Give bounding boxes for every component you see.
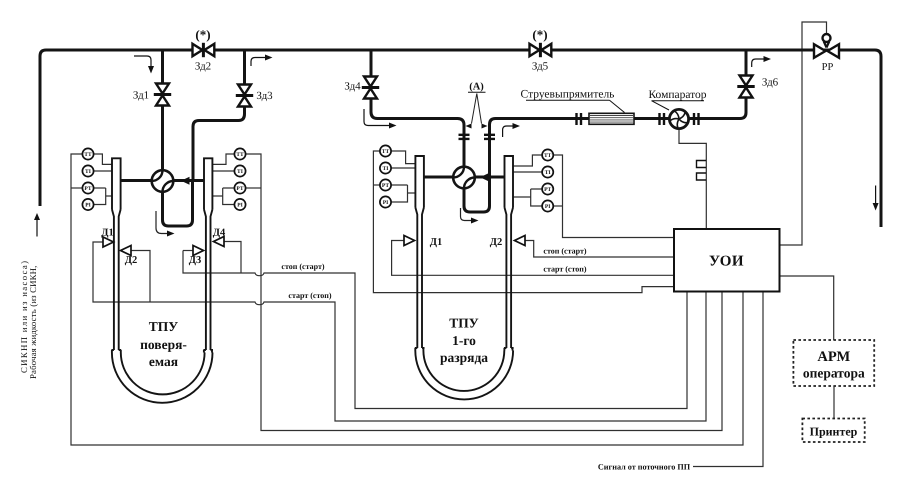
outlet arrow (down) xyxy=(875,186,877,205)
arrow into Zd4 branch xyxy=(364,109,390,126)
wire: prover2 left instrument trunk to UOI left xyxy=(373,151,674,293)
valve Zd5 xyxy=(530,44,552,56)
seat bar Zd2 xyxy=(202,43,205,57)
valve Zd6 xyxy=(740,76,753,98)
wire: prover1 header between tubes through 4-way valve xyxy=(121,179,204,182)
svg-text:Д2: Д2 xyxy=(490,237,502,248)
svg-text:УОИ: УОИ xyxy=(709,254,744,270)
inlet arrow (up) xyxy=(36,219,38,237)
svg-text:TI: TI xyxy=(85,169,91,175)
box UOI xyxy=(674,229,780,292)
control valve RR with actuator xyxy=(814,34,839,58)
detector D1 prover2 xyxy=(404,236,415,246)
svg-text:PT: PT xyxy=(84,186,91,192)
instrument group prover1 left: TT TI PT PI xyxy=(82,148,93,210)
wire: ARM to printer xyxy=(833,386,835,419)
detector D2 prover1 xyxy=(121,246,132,256)
wire: prover1 right instrument trunk to UOI bottom bus C xyxy=(246,154,723,431)
prover2 right tube xyxy=(505,156,514,208)
junction arrow on prover1 header pointing left xyxy=(181,177,190,185)
pulse symbol on comparator line xyxy=(697,161,707,181)
svg-text:Зд6: Зд6 xyxy=(762,77,779,89)
svg-text:Компаратор: Компаратор xyxy=(648,89,706,101)
svg-text:Зд2: Зд2 xyxy=(195,61,211,73)
detector labels xyxy=(101,228,502,267)
valve Zd2 xyxy=(193,44,215,56)
wire: comparator pulse line to UOI top xyxy=(679,128,706,229)
detector D3 prover1 xyxy=(193,246,204,256)
svg-text:оператора: оператора xyxy=(803,366,865,381)
svg-text:Д3: Д3 xyxy=(189,255,201,266)
prover2 left tube xyxy=(415,156,424,208)
svg-text:TT: TT xyxy=(544,153,552,159)
svg-text:старт (стоп): старт (стоп) xyxy=(288,291,332,300)
flanges on prover2 right riser xyxy=(484,135,495,139)
wire: prover1 left PT tap to trunk xyxy=(71,187,83,189)
svg-text:разряда: разряда xyxy=(440,350,488,365)
wire: stop(start) line prover1 from D3/D4 to UOI (bus A) with hop xyxy=(183,251,687,409)
wire: Zd3 branch down, jog left, down to prover1 valve outlet junction xyxy=(193,50,245,181)
detector D2 prover2 xyxy=(515,236,526,246)
svg-text:Д1: Д1 xyxy=(430,237,442,248)
svg-text:Зд5: Зд5 xyxy=(532,61,549,73)
svg-text:поверя-: поверя- xyxy=(140,337,187,352)
prover1 right tube xyxy=(204,158,212,209)
svg-text:TI: TI xyxy=(545,170,551,176)
flow direction arrow under prover2 valve xyxy=(461,208,473,221)
wire: instrument elbows prover2 left group xyxy=(391,151,415,164)
wire: main inlet riser and top header pipe, right outlet drop xyxy=(40,50,881,227)
svg-text:Зд3: Зд3 xyxy=(256,90,273,102)
svg-text:ТПУ: ТПУ xyxy=(449,316,479,331)
svg-text:PI: PI xyxy=(237,203,243,209)
wire: prover2 right PI tap xyxy=(553,205,562,207)
signal labels xyxy=(281,246,587,299)
svg-text:PT: PT xyxy=(544,187,551,193)
svg-text:TI: TI xyxy=(237,169,243,175)
wire: Zd4 branch down and over to prover2 valve xyxy=(371,50,464,178)
detector D4 prover1 xyxy=(214,237,225,247)
wire: prover1 valve bottom loop xyxy=(163,181,193,226)
op valve prover1 4-way xyxy=(152,170,174,192)
wire: D4 stub to stop line xyxy=(224,242,241,274)
prover1 left tube xyxy=(112,158,121,209)
flow direction arrow under prover1 valve xyxy=(156,211,168,234)
svg-text:АРМ: АРМ xyxy=(817,349,850,365)
junction arrow on prover2 header pointing left xyxy=(480,173,489,181)
seat bar Zd3 xyxy=(236,94,253,97)
arrow into Zd1 branch xyxy=(134,56,151,67)
wire: prover2 valve bottom loop and right riser to straightener xyxy=(464,119,589,213)
box ARM operatora (dashed) xyxy=(793,340,874,386)
valve Zd4 xyxy=(364,77,377,99)
svg-text:Зд4: Зд4 xyxy=(344,81,361,93)
svg-text:РР: РР xyxy=(822,62,834,73)
svg-text:PI: PI xyxy=(383,200,389,206)
wire: pipe straightener to comparator to Zd6 riser xyxy=(634,50,746,119)
svg-text:Сигнал от поточного ПП: Сигнал от поточного ПП xyxy=(598,462,691,471)
svg-text:емая: емая xyxy=(149,354,178,369)
wire: instrument elbows prover2 right group xyxy=(513,155,543,166)
wire: prover2 D2 stop(start) line to UOI xyxy=(525,241,674,258)
seat bar Zd5 xyxy=(539,43,542,57)
svg-text:СИКНП или из насоса): СИКНП или из насоса) xyxy=(19,260,29,373)
flanges on prover2 left riser xyxy=(459,135,470,139)
prover big labels xyxy=(140,316,488,370)
svg-text:PI: PI xyxy=(85,203,91,209)
arrow after A junction xyxy=(503,126,514,137)
wire: prover1 left instrument trunk to UOI bottom bus D xyxy=(71,154,743,445)
svg-text:1-го: 1-го xyxy=(452,333,476,348)
svg-text:Д2: Д2 xyxy=(125,255,137,266)
op valve prover2 4-way xyxy=(453,167,475,189)
svg-text:TT: TT xyxy=(84,152,92,158)
instrument group prover2 left xyxy=(380,145,391,207)
wire: prover2 left PT tap xyxy=(373,184,380,186)
svg-text:Струевыпрямитель: Струевыпрямитель xyxy=(521,89,615,101)
svg-text:Принтер: Принтер xyxy=(810,425,858,439)
svg-text:TT: TT xyxy=(236,152,244,158)
arrow out of Zd3 branch xyxy=(251,58,266,67)
flanges after comparator xyxy=(694,113,699,125)
svg-text:TT: TT xyxy=(382,149,390,155)
seat bar Zd1 xyxy=(154,93,171,96)
arrow after Zd6 xyxy=(752,59,765,67)
svg-text:PT: PT xyxy=(236,186,243,192)
seat bar Zd4 xyxy=(362,86,379,89)
svg-text:стоп (старт): стоп (старт) xyxy=(281,262,325,271)
svg-text:Д4: Д4 xyxy=(213,228,226,239)
valve Zd1 xyxy=(156,84,169,106)
svg-text:(*): (*) xyxy=(195,27,210,42)
svg-text:(А): (А) xyxy=(469,82,484,93)
wire: start(stop) line prover1 from D1/D2 to UOI (bus B) with hop xyxy=(93,242,706,421)
wire: Zd1 branch down to prover1 4-way valve xyxy=(161,50,164,181)
valve Zd3 xyxy=(238,85,251,107)
wire: prover2 D1 start(stop) line to UOI xyxy=(392,241,674,276)
flanges before straightener xyxy=(577,113,582,125)
svg-text:стоп (старт): стоп (старт) xyxy=(543,246,587,255)
seat bar Zd6 xyxy=(737,85,754,88)
wire: flow PP signal to UOI bottom xyxy=(693,292,763,467)
wire: instrument elbows prover1 left group xyxy=(94,154,113,164)
wire: D2 stub to start line xyxy=(131,251,150,303)
flanges straightener-comparator xyxy=(660,113,665,125)
svg-text:Зд1: Зд1 xyxy=(133,90,149,102)
svg-text:старт (стоп): старт (стоп) xyxy=(543,265,587,274)
wire: D3 stub xyxy=(183,250,193,252)
instrument group prover1 right xyxy=(234,148,245,210)
prover1 U-bend xyxy=(112,353,213,403)
rotated inlet label xyxy=(19,260,38,379)
detector D1 prover1 xyxy=(103,237,114,247)
svg-text:Рабочая жидкость (из СИКН,: Рабочая жидкость (из СИКН, xyxy=(28,265,38,379)
svg-text:ТПУ: ТПУ xyxy=(149,319,179,334)
wire: UOI to ARM operator xyxy=(780,276,834,340)
wire: prover1 right PT tap to trunk xyxy=(246,187,262,189)
instrument group prover2 right xyxy=(542,149,553,211)
svg-text:Д1: Д1 xyxy=(101,228,113,239)
wire: instrument elbows prover1 right group xyxy=(212,154,234,164)
wire: RR control line from UOI right xyxy=(780,22,827,245)
svg-text:TI: TI xyxy=(383,166,389,172)
wire: prover2 right instrument trunk to UOI xyxy=(553,155,674,238)
svg-text:PT: PT xyxy=(382,183,389,189)
wire: prover2 header between tubes xyxy=(423,176,504,179)
box Printer (dashed) xyxy=(802,419,864,443)
prover2 U-bend xyxy=(415,351,513,400)
svg-text:(*): (*) xyxy=(532,27,547,42)
svg-text:PI: PI xyxy=(545,204,551,210)
